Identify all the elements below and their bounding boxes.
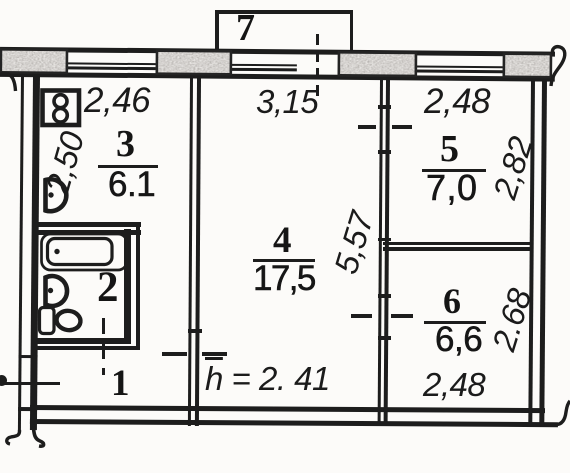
bathroom right wall thick (inner) [124, 229, 131, 344]
kitchen wall tick [188, 329, 202, 333]
room label 4 [273, 219, 292, 262]
central wall jamb tick (room6 door bottom) [378, 336, 391, 340]
kitchen label fraction: room number 3 [116, 122, 135, 166]
kitchen sink [46, 179, 67, 211]
toilet bowl [55, 309, 81, 331]
kitchen/room4 wall left line [188, 76, 194, 426]
central wall jamb tick (room6 door top) [378, 294, 391, 298]
balcony door dashed axis [316, 34, 319, 96]
bathroom right wall thin (outer) [136, 222, 141, 350]
bottom wall inner line [30, 405, 545, 413]
pipe riser circle [0, 375, 7, 386]
fraction bar room 6 [424, 321, 486, 324]
top-right wall break hook [551, 47, 565, 86]
balcony box right side [350, 10, 354, 56]
central wall right line [384, 76, 390, 423]
room6 door dash left [351, 314, 372, 318]
left wall outer thin line [18, 73, 25, 433]
dim 2,46 [84, 81, 150, 121]
separator wall rooms 5/6 upper line [383, 242, 531, 246]
left wall inner thick line [30, 76, 40, 430]
left wall tie (bottom) [18, 407, 37, 411]
stove (kitchen) [43, 91, 80, 126]
room label 2 (bathroom) [97, 263, 119, 312]
room5 door dash right [392, 125, 412, 129]
top-left wall break hook [0, 74, 16, 91]
bathtub outer [42, 234, 128, 270]
kitchen/bath separator lower line [33, 230, 141, 235]
bottom-left wall break hooks [7, 430, 20, 444]
area 6,6 [435, 320, 482, 360]
dim 2,48 (top) [424, 82, 490, 122]
right wall outer line [528, 77, 535, 423]
toilet cistern [40, 308, 55, 334]
area 17,5 [253, 259, 315, 299]
pipe riser line [0, 382, 60, 385]
kitchen/bath separator upper line [33, 222, 141, 227]
area 7,0 [426, 167, 478, 209]
dim 2.68 (rotated, room6 depth) [485, 285, 540, 356]
hall/room4 door dash right [202, 352, 227, 356]
bathroom door dashed axis [102, 318, 105, 375]
window pane lines: kitchen window [68, 62, 156, 66]
balcony box (room 7) left side [215, 10, 219, 56]
fraction bar room 3 [98, 165, 158, 168]
central wall junction tick (separator) [378, 238, 391, 241]
area 6.1 [108, 165, 155, 205]
separator wall rooms 5/6 lower line [383, 247, 531, 251]
window pane lines: room 5 window [417, 65, 503, 69]
balcony box top side [215, 10, 353, 14]
top wall: outer top line [0, 47, 555, 56]
window pane lines: room 4 window [232, 63, 297, 66]
central wall (room4 | 5,6) left line [378, 76, 384, 423]
room label 5 [440, 127, 459, 171]
room label 6 [443, 280, 461, 322]
fraction bar room 4 [253, 259, 315, 262]
hatched wall blocks (speckled masonry) [0, 49, 552, 77]
room6 door dash right [391, 314, 413, 318]
bathroom bottom wall thin (outer) [33, 346, 140, 350]
central wall jamb tick (room5 door top) [378, 105, 391, 109]
bathroom bottom wall thick (inner) [33, 338, 131, 344]
fraction bar room 5 [422, 169, 486, 172]
central wall jamb tick (room5 door bottom) [378, 150, 391, 154]
right wall inner line [539, 77, 547, 426]
room label 7 [236, 6, 255, 50]
dim 3,15 [256, 83, 318, 121]
kitchen/room4 wall right line [194, 76, 200, 426]
bathroom washbasin [46, 276, 68, 306]
left wall tie (mid) [19, 355, 38, 358]
dim h = 2.41 [205, 360, 330, 398]
top wall: inner bottom line [0, 72, 555, 81]
dim 2,48 (bottom room 6) [423, 366, 485, 404]
room label 1 (hall) [111, 362, 130, 405]
dim 5,57 (rotated, room4 depth) [327, 208, 382, 279]
dim 2,50 (rotated, kitchen depth) [38, 128, 92, 198]
dim 2,82 (rotated, room5 depth) [486, 133, 541, 204]
hall/room4 door dash left [162, 352, 187, 356]
bottom wall outer line [30, 419, 558, 427]
room5 door dash left [358, 125, 376, 129]
bathtub inner [48, 239, 113, 265]
bottom-right wall break hook [556, 401, 570, 425]
